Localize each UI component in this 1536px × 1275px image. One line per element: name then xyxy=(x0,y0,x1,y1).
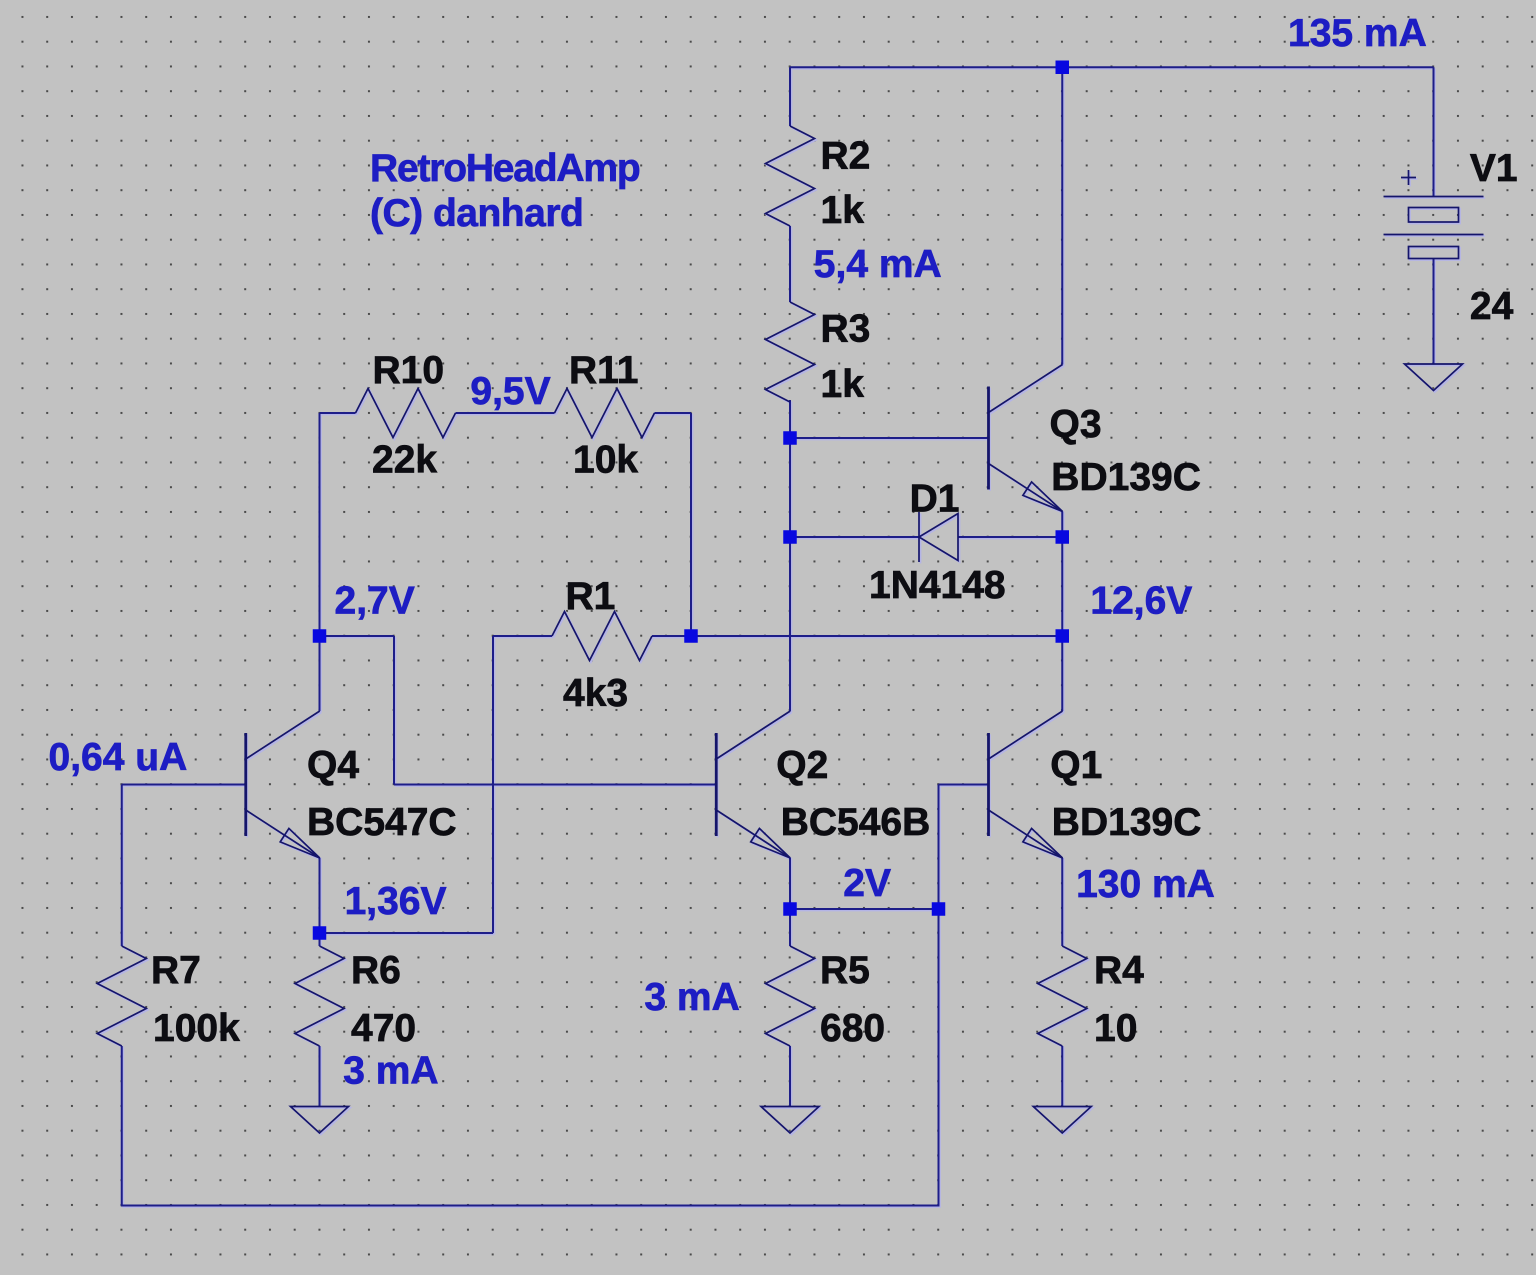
ground under R6 xyxy=(291,1107,349,1134)
wire R3 bottom lead xyxy=(789,400,791,438)
wire Q3 base xyxy=(790,437,989,439)
transistor Q1 base bar xyxy=(987,733,990,836)
transistor Q4 base bar xyxy=(244,733,247,836)
wire D1 left lead xyxy=(790,536,919,538)
resistor R5 xyxy=(766,946,815,1046)
svg-text:1k: 1k xyxy=(821,189,865,232)
wire Q4 collector riser xyxy=(319,636,321,711)
svg-text:3 mA: 3 mA xyxy=(343,1050,438,1093)
resistor R1 xyxy=(552,612,652,661)
svg-text:R11: R11 xyxy=(569,349,638,392)
ground under R4 xyxy=(1033,1107,1091,1134)
resistor R10 xyxy=(356,389,456,438)
wire R6 top lead xyxy=(319,933,321,946)
wire R1 right lead xyxy=(652,635,691,637)
resistor R7 xyxy=(97,946,146,1046)
wire 12.6V column xyxy=(1061,537,1063,636)
svg-text:12,6V: 12,6V xyxy=(1090,580,1192,623)
wire Q3 emitter drop xyxy=(1061,512,1063,538)
junction 2V right xyxy=(932,902,946,916)
transistor Q4 collector xyxy=(246,711,320,759)
junction 1.36V node xyxy=(313,926,327,940)
svg-text:V1: V1 xyxy=(1470,147,1518,190)
svg-text:4k3: 4k3 xyxy=(563,672,628,715)
wire Q1 emitter drop xyxy=(1061,858,1063,946)
svg-text:R1: R1 xyxy=(566,575,616,618)
wire Q4 base xyxy=(122,784,246,786)
battery V1 cell 2 xyxy=(1409,247,1459,259)
transistor Q4 emitter arrow xyxy=(280,828,320,858)
junction Q3 base node xyxy=(783,431,797,445)
wire battery drop xyxy=(1433,67,1435,196)
svg-text:BC547C: BC547C xyxy=(307,801,457,844)
wire R11 right lead xyxy=(655,412,692,414)
battery V1 plate 1 xyxy=(1384,196,1484,198)
svg-text:Q4: Q4 xyxy=(307,744,359,787)
svg-text:R2: R2 xyxy=(821,135,871,178)
wire R11 right drop xyxy=(690,413,692,636)
wire Q4 emitter drop xyxy=(319,858,321,933)
diode D1 cathode bar xyxy=(918,512,920,562)
wire R5 bottom lead xyxy=(789,1046,791,1107)
svg-text:9,5V: 9,5V xyxy=(470,370,550,413)
svg-text:R7: R7 xyxy=(151,949,201,992)
wire top rail xyxy=(790,66,1434,68)
svg-text:BD139C: BD139C xyxy=(1051,456,1201,499)
resistor R6 xyxy=(295,946,344,1046)
battery V1 plus sign xyxy=(1401,170,1416,185)
svg-text:470: 470 xyxy=(351,1007,416,1050)
resistor R4 xyxy=(1038,946,1087,1046)
junction 2.7V node xyxy=(313,629,327,643)
wire Q3 collector riser xyxy=(1061,67,1063,364)
svg-text:1k: 1k xyxy=(821,363,865,406)
transistor Q3 collector xyxy=(989,365,1063,413)
svg-text:(C) danhard: (C) danhard xyxy=(370,192,583,235)
wire R1 left lead xyxy=(493,635,552,637)
transistor Q2 emitter xyxy=(716,810,790,858)
wire 2.7V node to right xyxy=(320,635,395,637)
wire node to D1 anode column xyxy=(789,438,791,537)
svg-text:1N4148: 1N4148 xyxy=(869,564,1006,607)
resistor R11 xyxy=(555,389,655,438)
wire R1-left down column xyxy=(492,636,494,933)
transistor Q3 base bar xyxy=(987,387,990,490)
svg-text:24: 24 xyxy=(1470,285,1514,328)
resistor R3 xyxy=(766,302,815,402)
wire D1-left down to Q2 collector xyxy=(789,537,791,711)
wire Q1 base xyxy=(939,784,989,786)
wire R6 bottom lead xyxy=(319,1046,321,1107)
wire Q1 collector riser xyxy=(1061,636,1063,711)
junction 2V left xyxy=(783,902,797,916)
wire R7 top lead xyxy=(121,785,123,947)
wire Q2 emitter drop xyxy=(789,858,791,909)
svg-text:R6: R6 xyxy=(351,949,401,992)
battery V1 cell 1 xyxy=(1409,208,1459,223)
transistor Q2 collector xyxy=(716,711,790,759)
transistor Q2 emitter arrow xyxy=(751,828,791,858)
transistor Q1 emitter arrow xyxy=(1023,828,1063,858)
transistor Q1 emitter xyxy=(989,810,1063,858)
wire base bus to Q2 xyxy=(394,784,716,786)
wire R4 bottom lead xyxy=(1061,1046,1063,1107)
wire battery to ground xyxy=(1433,259,1435,365)
ground under battery xyxy=(1405,364,1463,391)
junction R1 right xyxy=(684,629,698,643)
battery V1 plate 2 xyxy=(1384,234,1484,236)
transistor Q2 base bar xyxy=(715,733,718,836)
transistor Q4 emitter xyxy=(246,810,320,858)
svg-text:130 mA: 130 mA xyxy=(1076,863,1215,906)
wire R7 bottom + return rail xyxy=(122,909,939,1206)
svg-text:R10: R10 xyxy=(373,349,445,392)
svg-text:BD139C: BD139C xyxy=(1052,801,1202,844)
svg-text:R4: R4 xyxy=(1094,949,1144,992)
svg-text:BC546B: BC546B xyxy=(781,801,931,844)
svg-text:22k: 22k xyxy=(372,439,437,482)
svg-text:10: 10 xyxy=(1094,1007,1137,1050)
svg-text:RetroHeadAmp: RetroHeadAmp xyxy=(370,147,640,190)
wire drop to base bus xyxy=(393,636,395,785)
svg-text:3 mA: 3 mA xyxy=(644,976,739,1019)
wire R2 top lead xyxy=(789,67,791,126)
wire R5 top lead xyxy=(789,909,791,946)
svg-text:10k: 10k xyxy=(573,439,638,482)
wire R10 left lead xyxy=(320,412,356,414)
diode D1 triangle xyxy=(919,514,958,561)
wire 1.36V horizontal xyxy=(320,932,494,934)
svg-text:0,64 uA: 0,64 uA xyxy=(49,736,188,779)
transistor Q3 emitter xyxy=(989,464,1063,512)
svg-text:2V: 2V xyxy=(843,862,891,905)
junction 12.6V node xyxy=(1056,629,1070,643)
wire R10-R11 link xyxy=(456,412,555,414)
svg-text:1,36V: 1,36V xyxy=(345,880,447,923)
svg-text:100k: 100k xyxy=(153,1007,240,1050)
wire R10 left drop xyxy=(319,413,321,636)
wire 2V horizontal xyxy=(790,908,939,910)
svg-text:135 mA: 135 mA xyxy=(1288,12,1427,55)
svg-text:R3: R3 xyxy=(821,308,871,351)
svg-text:R5: R5 xyxy=(820,949,870,992)
wire R2-R3 link xyxy=(789,226,791,302)
junction top rail xyxy=(1056,61,1070,75)
junction D1 left xyxy=(783,530,797,544)
svg-text:680: 680 xyxy=(820,1007,885,1050)
wire mid horizontal bus xyxy=(691,635,1062,637)
resistor R2 xyxy=(766,126,815,226)
wire D1 right lead xyxy=(958,536,1062,538)
svg-text:2,7V: 2,7V xyxy=(335,580,415,623)
svg-text:Q1: Q1 xyxy=(1050,744,1102,787)
ground under R5 xyxy=(761,1107,819,1134)
transistor Q1 collector xyxy=(989,711,1063,759)
transistor Q3 emitter arrow xyxy=(1023,482,1063,512)
svg-text:Q3: Q3 xyxy=(1050,403,1102,446)
wire Q1 base drop xyxy=(938,785,940,910)
junction D1 right xyxy=(1056,530,1070,544)
svg-text:D1: D1 xyxy=(910,478,960,521)
svg-text:5,4 mA: 5,4 mA xyxy=(814,243,942,286)
svg-text:Q2: Q2 xyxy=(776,744,828,787)
